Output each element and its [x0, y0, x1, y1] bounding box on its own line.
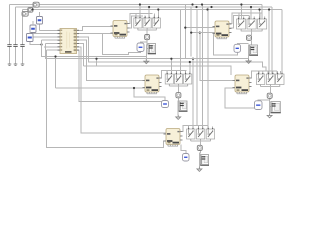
sounder LS5 — [200, 155, 209, 166]
pin pad U1 R4 — [74, 39, 76, 41]
wire RL group D stub 3 — [276, 71, 278, 74]
junction on bus 3 at RL6 — [258, 8, 260, 10]
wire mid drop to RL15 — [207, 7, 209, 129]
wire S3 stub — [29, 30, 31, 34]
ground block D — [267, 113, 272, 118]
wire block B to square — [251, 31, 253, 35]
wire mid drop to U5 pin 1 — [200, 33, 235, 81]
wire U1 right pin 4 run — [77, 40, 146, 80]
pin U1 R5 — [77, 43, 80, 45]
wire bus drop to RL3 — [157, 10, 159, 19]
button S1 — [37, 17, 43, 25]
relay RL14 — [196, 127, 204, 142]
wire U4 to RL7 connector — [159, 71, 187, 79]
IC U1 PIC16F877 — [60, 29, 77, 54]
wire U3 under loop — [214, 34, 238, 56]
crystal X3 — [22, 11, 28, 16]
pin U1 R7 — [77, 49, 80, 51]
wire block D to square — [270, 87, 272, 94]
wire U1 left pin 1 from S1 — [40, 29, 61, 31]
wire U1 right pin 2 — [77, 33, 114, 35]
wire net U1 bottom run — [47, 50, 167, 148]
pin U1 R3 — [77, 36, 80, 38]
wire bus vertical v191 — [190, 7, 192, 57]
wire right drop 1 — [261, 5, 263, 20]
junction mid bus 3 — [206, 8, 208, 10]
wire U4 pin2 branch to cap C top — [134, 88, 165, 101]
wire top bus 1 — [10, 4, 262, 6]
wire block E center vertical — [199, 151, 200, 167]
pin U1 L4 — [58, 39, 61, 41]
wire crystal net 3 vertical — [22, 10, 24, 65]
wire RL group C stub 1 — [166, 71, 168, 75]
component D3 square C — [176, 93, 181, 98]
wire to U4 vertical — [55, 57, 57, 89]
wire U1 left pin 4 — [42, 39, 61, 41]
wire U1 left pin 7 — [47, 49, 61, 51]
wire U1 right pin 7 run — [77, 50, 166, 101]
pin U1 L7 — [58, 49, 61, 51]
pin U1 L3 — [58, 36, 61, 38]
wire U5 to RL10 connector — [249, 71, 277, 78]
pin pad U1 L4 — [60, 39, 62, 40]
ground left 3 — [21, 64, 25, 65]
wire mid drop spare 1 — [196, 10, 198, 126]
wire mid drop to RL14 — [202, 5, 204, 130]
wire block A cap branch — [141, 42, 147, 43]
capacitor C2 — [13, 45, 18, 47]
wire block A relay bottom connector — [138, 29, 156, 31]
junction on bus 1 at RL1 — [139, 3, 141, 5]
wire block B center vertical — [249, 40, 252, 58]
pin pad U1 L2 — [60, 33, 62, 34]
relay RL11 — [266, 72, 274, 87]
wire block E relay bottom connector — [191, 140, 211, 142]
wire block A to square — [146, 30, 148, 34]
junction right drop 4 — [268, 8, 270, 10]
junction cap C branch — [133, 87, 135, 89]
wire bus drop to RL2 — [148, 7, 150, 18]
wire RL group C stub 2 — [175, 71, 177, 75]
wire right drop 4 — [268, 10, 270, 75]
junction U5 feed — [199, 31, 201, 33]
ground block E — [197, 167, 202, 172]
wire RL group B stub 2 — [248, 16, 250, 20]
relay RL13 — [187, 127, 195, 142]
wire U1 right pin 1 to U2 — [77, 27, 114, 31]
button S3 — [27, 34, 34, 42]
wire U5 pin 2 loop to cap D — [225, 88, 255, 108]
pin pad U1 L6 — [60, 46, 62, 47]
pin pad U1 R3 — [74, 36, 76, 38]
wire bus drop to RL1 — [139, 5, 141, 19]
pin U1 L1 — [58, 29, 61, 31]
wire RL group A stub 2 — [144, 16, 146, 18]
button S2 — [30, 25, 36, 33]
relay RL8 — [174, 72, 182, 87]
wire band y65.8 extension — [84, 66, 232, 75]
IC U2 — [111, 21, 130, 39]
junction band at RL7 — [170, 58, 172, 60]
pin U1 L2 — [58, 33, 61, 35]
junction mid bus 1 — [191, 3, 193, 5]
wire RL group C stub 3 — [185, 71, 187, 75]
capacitor C1 — [7, 45, 12, 47]
relay RL15 — [206, 127, 214, 142]
pin U1 L5 — [58, 43, 61, 45]
sounder LS1 — [148, 44, 156, 55]
wire block B cap branch — [238, 43, 249, 44]
wire block C relay bottom connector — [169, 85, 187, 87]
wire RL group E stub 1 — [188, 126, 190, 130]
relay RL9 — [184, 72, 192, 87]
IC U3 — [213, 21, 232, 39]
capacitor C5 — [234, 44, 241, 52]
wire S1 stub — [39, 12, 41, 17]
junction x97 on band — [95, 58, 97, 60]
wire block A sounder feed — [146, 48, 148, 50]
IC U6 — [164, 129, 183, 147]
relay RL6 — [258, 17, 267, 32]
wire S1 bottom stub — [39, 24, 41, 30]
wire U2 to RL1 connector — [127, 14, 153, 24]
junction on bus 2 at RL5 — [250, 6, 252, 8]
wire block D cap branch — [258, 100, 270, 101]
junction on bus 1 at RL4 — [240, 3, 242, 5]
wire block A center vertical — [145, 40, 148, 59]
pin pad U1 R7 — [74, 49, 76, 51]
junction top-left — [31, 8, 33, 10]
relay RL12 — [276, 72, 284, 87]
pin pad U1 R1 — [74, 30, 76, 32]
junction mid bus 2 — [201, 3, 203, 5]
pin pad U1 L1 — [60, 30, 62, 31]
pin pad U1 L7 — [60, 49, 62, 50]
pin pad U1 R6 — [74, 46, 76, 48]
wire bus drop to RL6 — [259, 10, 261, 20]
wire top bus 2 — [16, 6, 273, 8]
pin pad U1 R2 — [74, 33, 76, 35]
ground block B — [246, 59, 251, 64]
junction on bus 3 at RL3 — [157, 8, 159, 10]
pin pad U1 R5 — [74, 43, 76, 45]
wire U1 left pin 3 from S3 — [33, 36, 60, 38]
wire right drop 3 — [281, 10, 283, 75]
IC U4 — [143, 75, 162, 94]
pin U1 R1 — [77, 29, 80, 31]
component D1 square A — [145, 35, 150, 40]
wire net U1 lower-left L2 — [46, 44, 249, 59]
junction S3 link — [40, 43, 42, 45]
wire U1 left pin 6 — [44, 46, 60, 48]
wire crystal net 2 vertical — [15, 7, 17, 64]
wire branch U3 pin 2 — [191, 32, 215, 34]
ground left 1 — [8, 64, 12, 65]
component D4 square D — [267, 93, 272, 98]
ground left 2 — [14, 64, 18, 65]
wire bus drop to RL8 — [180, 10, 182, 75]
pin U1 R4 — [77, 39, 80, 41]
junction mid bus 4 — [210, 6, 212, 8]
wire U6 to RL13 connector — [180, 126, 208, 132]
relay RL3 — [152, 16, 160, 31]
wire S2 bottom stub — [32, 33, 34, 34]
junction U3 pin 1 branch — [184, 27, 186, 29]
wire block D relay bottom connector — [261, 86, 280, 88]
wire right drop to RL12 — [279, 71, 281, 74]
relay RL4 — [237, 17, 246, 32]
junction U3 pin 2 branch — [190, 31, 192, 33]
wire block C to square — [178, 86, 180, 92]
wire U3 to RL5 connector — [229, 16, 249, 29]
ground block A — [144, 59, 149, 64]
junction mid bus 5 — [195, 6, 197, 8]
wire U1 right pin 3 run — [77, 37, 267, 71]
wire right drop 2 — [271, 7, 273, 74]
wire RL group D stub 2 — [267, 71, 269, 74]
capacitor C7 — [255, 101, 263, 110]
wire U3 to RL4 connector — [229, 13, 262, 24]
component D2 square B — [247, 35, 252, 40]
capacitor C6 — [162, 101, 169, 108]
wire right drop to RL11 — [271, 71, 273, 74]
wire mid drop to RL13 — [192, 59, 194, 129]
wire band drop to RL7 — [170, 59, 172, 74]
ground block C — [176, 115, 181, 120]
wire block C sounder feed — [177, 105, 180, 107]
wire to U4 pin 2 — [56, 87, 146, 89]
wire crystal net 1 vertical — [9, 5, 11, 65]
pin U1 L6 — [58, 46, 61, 48]
relay RL10 — [256, 72, 264, 87]
crystal X1 — [33, 2, 39, 7]
wire block E sounder feed — [199, 159, 200, 161]
wire RL group D stub 1 — [258, 71, 260, 74]
wire block D sounder feed — [270, 106, 271, 108]
component D5 square E — [197, 145, 202, 150]
junction on bus 2 at RL2 — [148, 6, 150, 8]
junction RL13 drop — [192, 58, 194, 60]
sounder LS3 — [179, 101, 188, 112]
pin U1 R6 — [77, 46, 80, 48]
junction band at RL9 — [189, 61, 191, 63]
capacitor C4 — [137, 43, 144, 52]
pin U1 R2 — [77, 33, 80, 35]
wire U6 to cap E — [181, 145, 186, 154]
wire top bus 3 — [23, 9, 283, 11]
wire net U1 to U6 lower-left L1 — [42, 40, 147, 56]
wire U2 to RL2 connector — [127, 16, 143, 28]
wire band drop to RL9 — [189, 62, 191, 74]
wire RL group A stub 3 — [154, 14, 156, 19]
wire RL group E stub 3 — [207, 126, 209, 130]
wire block B relay bottom connector — [241, 30, 262, 32]
relay RL5 — [247, 17, 256, 32]
wire bus drop to RL5 — [250, 7, 252, 19]
wire block D center vertical — [270, 98, 271, 113]
wire branch x97 — [96, 59, 98, 66]
wire bus vertical v185 — [184, 5, 186, 59]
wire block C center vertical — [177, 98, 179, 115]
wire block B sounder feed — [248, 49, 251, 51]
wire U2 under loop to cap A — [103, 34, 141, 55]
crystal X2 — [28, 8, 33, 13]
wire RL group A stub 1 — [135, 14, 137, 19]
wire U1 left pin 5 — [46, 43, 61, 45]
wire U1 left pin 2 from S2 — [33, 33, 60, 35]
capacitor C3 — [20, 45, 25, 47]
relay RL2 — [143, 16, 151, 31]
relay RL1 — [134, 16, 142, 31]
wire RL group B stub 1 — [238, 13, 240, 19]
relay RL7 — [165, 72, 173, 87]
wire RL group B stub 3 — [259, 13, 261, 19]
pin pad U1 L3 — [60, 36, 62, 37]
wire branch U3 pin 1 — [185, 27, 215, 29]
sounder LS4 — [271, 102, 281, 114]
sounder LS2 — [249, 45, 258, 56]
wire S2 stub — [32, 21, 34, 25]
capacitor C8 — [183, 154, 190, 162]
pin pad U1 L5 — [60, 43, 62, 44]
junction x56 on band — [54, 55, 56, 57]
IC U5 — [233, 75, 252, 94]
wire U1 right pin 5 run — [77, 44, 84, 66]
wire U1 right pin 6 run — [77, 47, 167, 133]
wire RL group E stub 2 — [197, 126, 199, 130]
wire bus drop to RL4 — [240, 5, 242, 20]
wire block E to square — [200, 141, 202, 145]
wire S3 to pin 4 link — [30, 42, 42, 45]
